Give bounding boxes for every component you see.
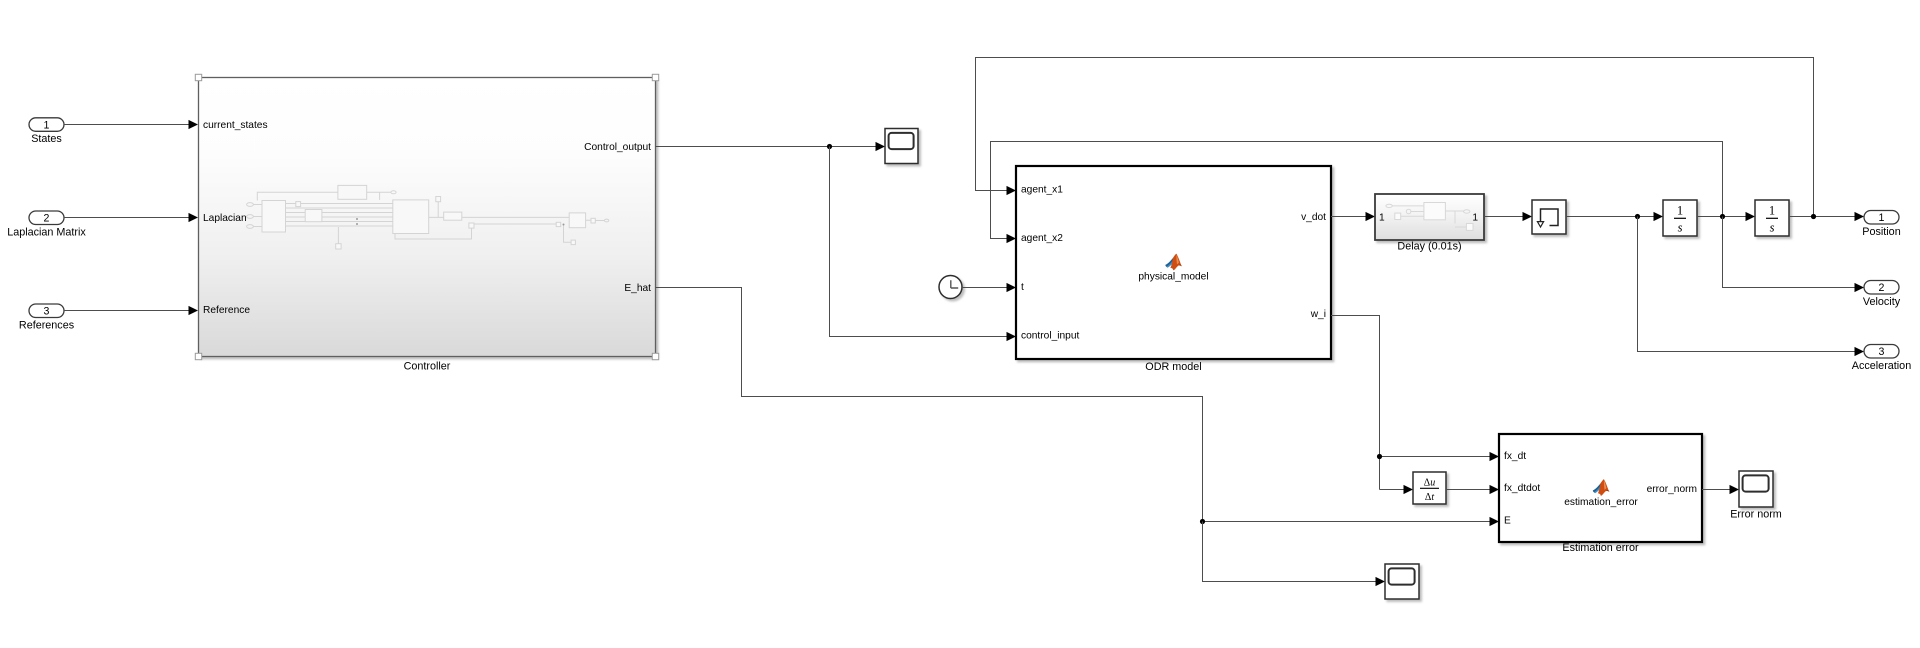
scope block (E_hat) xyxy=(1385,564,1419,599)
svg-text:Delay (0.01s): Delay (0.01s) xyxy=(1397,241,1461,253)
wire References to Controller xyxy=(64,310,189,312)
wire junction to Velocity port xyxy=(1723,217,1856,288)
svg-text:Laplacian Matrix: Laplacian Matrix xyxy=(7,226,86,238)
svg-text:3: 3 xyxy=(44,305,50,317)
svg-text:E_hat: E_hat xyxy=(624,283,651,294)
subsystem block Estimation error xyxy=(1499,434,1702,542)
algebraic loop break block xyxy=(1532,200,1566,234)
svg-text:physical_model: physical_model xyxy=(1138,272,1208,283)
Controller selection corner handles xyxy=(195,74,201,80)
junction to Velocity xyxy=(1720,214,1725,219)
svg-text:fx_dtdot: fx_dtdot xyxy=(1504,483,1540,494)
wire E junction down to scope2 xyxy=(1203,522,1377,582)
output port 3 Acceleration xyxy=(1864,345,1899,359)
wire Delay to loop-break block xyxy=(1484,216,1523,218)
wire derivative to fx_dtdot xyxy=(1446,489,1490,491)
svg-text:1: 1 xyxy=(1472,212,1478,223)
svg-text:Position: Position xyxy=(1862,226,1900,238)
svg-text:1: 1 xyxy=(1379,212,1385,223)
svg-text:v_dot: v_dot xyxy=(1301,212,1326,223)
svg-text:Δu: Δu xyxy=(1424,478,1435,489)
wire w_i to derivative xyxy=(1380,489,1405,491)
feedback wire position to agent_x1 xyxy=(976,58,1814,217)
svg-text:s: s xyxy=(1770,221,1775,235)
svg-text:control_input: control_input xyxy=(1021,331,1080,342)
wire error_norm to Error norm scope xyxy=(1702,489,1730,491)
svg-text:error_norm: error_norm xyxy=(1647,484,1697,495)
wire Laplacian to Controller xyxy=(64,217,189,219)
svg-text:Laplacian: Laplacian xyxy=(203,213,247,224)
svg-text:1: 1 xyxy=(44,119,50,131)
subsystem block ODR model xyxy=(1016,166,1331,359)
svg-text:States: States xyxy=(31,133,62,145)
Delay internal preview xyxy=(1386,203,1473,231)
input port 2 "Laplacian Matrix" xyxy=(29,211,64,225)
svg-text:s: s xyxy=(1678,221,1683,235)
svg-text:t: t xyxy=(1021,282,1024,293)
wire Control_output to Scope xyxy=(656,146,877,148)
svg-text:1: 1 xyxy=(1769,204,1775,218)
wire junction to Acceleration port xyxy=(1638,217,1856,352)
svg-text:Acceleration: Acceleration xyxy=(1852,360,1911,372)
svg-text:Control_output: Control_output xyxy=(584,142,651,153)
junction on E wire xyxy=(1200,519,1205,524)
MATLAB logo estimation_error xyxy=(1593,479,1610,496)
svg-text:3: 3 xyxy=(1879,346,1885,358)
input port 3 "References" xyxy=(29,304,64,318)
svg-text:Velocity: Velocity xyxy=(1863,296,1901,308)
wire Integrator1 to Position port xyxy=(1789,216,1855,218)
junction to Acceleration xyxy=(1635,214,1640,219)
svg-text:Estimation error: Estimation error xyxy=(1562,542,1639,554)
subsystem block Delay (0.01s) xyxy=(1375,194,1484,240)
wire junction down to control_input xyxy=(830,147,1008,337)
input port 1 "States" xyxy=(29,118,64,132)
feedback wire velocity to agent_x2 xyxy=(991,142,1723,239)
scope block (Control output) xyxy=(885,129,918,164)
svg-text:Reference: Reference xyxy=(203,305,250,316)
svg-text:2: 2 xyxy=(44,212,50,224)
svg-text:1: 1 xyxy=(1677,204,1683,218)
junction to feedback agent_x1 xyxy=(1811,214,1816,219)
svg-text:E: E xyxy=(1504,515,1511,526)
svg-text:References: References xyxy=(19,319,75,331)
integrator block 1 (1/s) xyxy=(1663,200,1697,236)
wire Integrator to Integrator1 xyxy=(1697,216,1746,218)
scope block Error norm xyxy=(1739,471,1773,507)
svg-text:agent_x1: agent_x1 xyxy=(1021,185,1063,196)
svg-text:1: 1 xyxy=(1879,212,1885,224)
Controller internal preview xyxy=(247,185,609,249)
svg-text:agent_x2: agent_x2 xyxy=(1021,233,1063,244)
wire E_hat routing down to E and scope xyxy=(656,288,1491,522)
wire v_dot to Delay xyxy=(1331,216,1366,218)
MATLAB logo physical_model xyxy=(1165,254,1182,271)
wire to Integrator xyxy=(1566,216,1654,218)
svg-text:fx_dt: fx_dt xyxy=(1504,451,1526,462)
svg-text:Δt: Δt xyxy=(1425,492,1434,503)
derivative block Du/Dt xyxy=(1413,472,1446,504)
wire w_i down to estimation inputs xyxy=(1331,316,1490,490)
svg-text:Controller: Controller xyxy=(404,361,451,373)
svg-text:estimation_error: estimation_error xyxy=(1564,497,1638,508)
junction on Control_output xyxy=(827,144,832,149)
junction on w_i wire xyxy=(1377,454,1382,459)
output port 1 Position xyxy=(1864,211,1899,225)
svg-text:current_states: current_states xyxy=(203,120,268,131)
integrator block 2 (1/s) xyxy=(1755,200,1789,236)
svg-text:w_i: w_i xyxy=(1310,309,1326,320)
wire States to Controller xyxy=(64,124,189,126)
clock source xyxy=(939,276,962,299)
output port 2 Velocity xyxy=(1864,281,1899,295)
wire clock to t xyxy=(962,287,1007,289)
svg-text:ODR model: ODR model xyxy=(1145,361,1201,373)
svg-text:2: 2 xyxy=(1879,282,1885,294)
subsystem block Controller xyxy=(195,74,658,372)
svg-text:Error norm: Error norm xyxy=(1730,509,1782,521)
